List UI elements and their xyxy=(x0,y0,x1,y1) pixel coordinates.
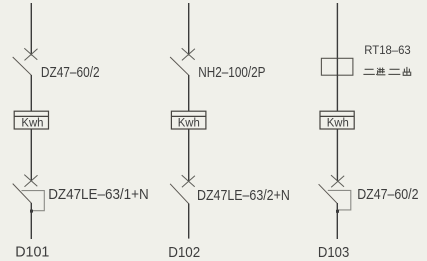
glyph chu xyxy=(403,67,411,75)
breaker QF3 blade xyxy=(170,57,189,75)
svg-text:DZ47–60/2: DZ47–60/2 xyxy=(41,64,100,81)
svg-text:NH2–100/2P: NH2–100/2P xyxy=(198,64,265,81)
breaker QF1 blade xyxy=(13,57,32,75)
svg-text:Kwh: Kwh xyxy=(178,115,200,129)
wire outgoing D101 xyxy=(30,203,32,239)
wire: D103 incoming supply xyxy=(336,3,338,58)
RCBO QF5 blade xyxy=(319,184,337,203)
svg-text:D101: D101 xyxy=(15,244,49,261)
junction dot D101 xyxy=(30,210,33,213)
svg-text:D103: D103 xyxy=(318,244,349,261)
RCBO QF5 residual current frame xyxy=(328,190,351,210)
RCBO QF2 blade xyxy=(13,184,32,204)
RCBO QF2 residual current frame xyxy=(22,191,45,211)
svg-text:RT18–63: RT18–63 xyxy=(364,45,410,57)
wire breaker to meter xyxy=(30,75,32,111)
wire through fuse xyxy=(336,58,338,75)
svg-text:DZ47LE–63/2+N: DZ47LE–63/2+N xyxy=(197,187,290,204)
svg-text:Kwh: Kwh xyxy=(327,115,349,129)
fuse FU1 body xyxy=(321,58,353,75)
wire meter 1 to RCBO xyxy=(30,129,32,181)
breaker QF4 blade xyxy=(170,184,189,204)
glyph jin xyxy=(376,68,385,75)
svg-text:Kwh: Kwh xyxy=(21,115,43,129)
breaker QF3 contact cross xyxy=(182,48,195,60)
junction dot D103 xyxy=(336,210,339,213)
kWh meter box 2 xyxy=(171,111,206,129)
wire outgoing D103 xyxy=(336,203,338,239)
wire: D102 incoming supply xyxy=(188,3,190,56)
wire: D101 incoming supply xyxy=(30,3,32,56)
kWh meter box 3 xyxy=(320,111,354,129)
wire meter 3 to RCBO QF5 xyxy=(336,129,338,181)
breaker QF1 contact cross xyxy=(24,48,37,60)
glyph er 2 xyxy=(388,69,400,74)
svg-text:DZ47–60/2: DZ47–60/2 xyxy=(357,186,418,203)
RCBO QF2 contact cross xyxy=(24,175,37,187)
glyph er 1 xyxy=(363,69,374,74)
label two-in-two-out (CJK) xyxy=(363,67,410,75)
wire breaker to meter 2 xyxy=(188,75,190,111)
wire fuse to meter 3 xyxy=(336,75,338,111)
svg-text:D102: D102 xyxy=(168,244,200,261)
RCBO QF5 contact cross xyxy=(331,175,344,187)
breaker QF4 contact cross xyxy=(182,175,195,187)
svg-text:DZ47LE–63/1+N: DZ47LE–63/1+N xyxy=(48,186,149,203)
wire meter 2 to breaker QF4 xyxy=(188,129,190,181)
kWh meter box 1 xyxy=(14,111,48,129)
wire outgoing D102 xyxy=(188,204,190,239)
